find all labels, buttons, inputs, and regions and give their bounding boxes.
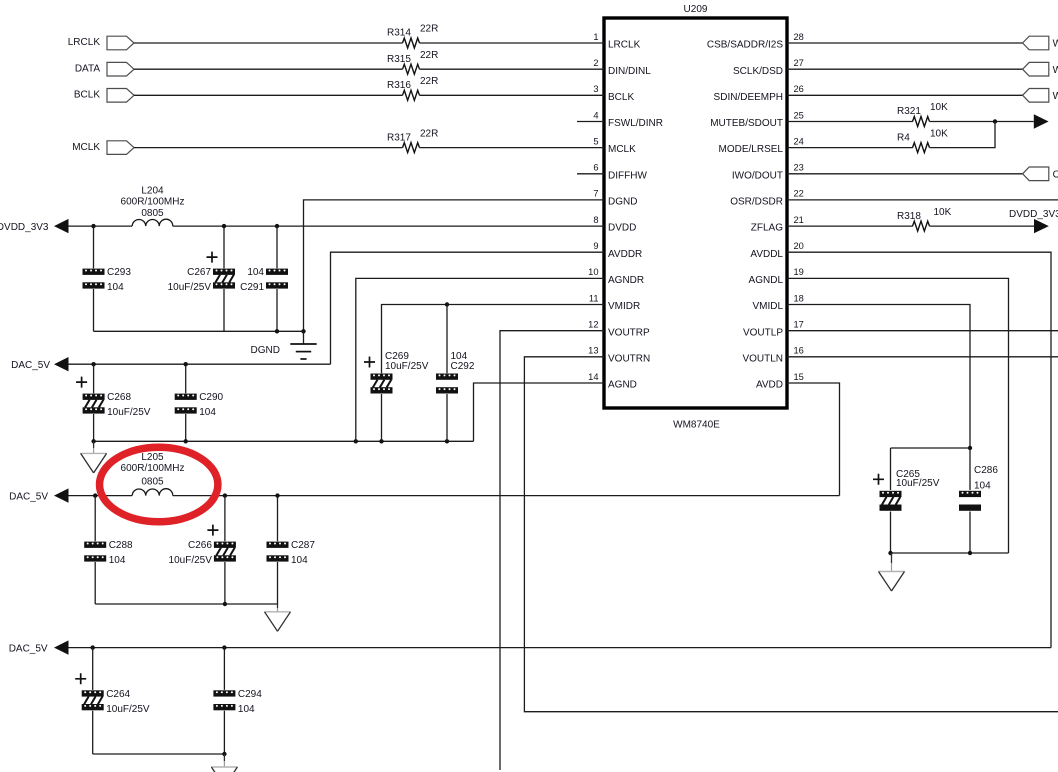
svg-text:W: W — [1053, 39, 1058, 50]
connector LRCLK — [107, 36, 134, 50]
svg-text:C290: C290 — [199, 392, 223, 403]
wire DAC_5V row3 left — [69, 495, 133, 497]
junction row2 / C290 — [184, 362, 188, 366]
svg-text:16: 16 — [794, 346, 804, 356]
svg-text:AGND: AGND — [608, 380, 637, 391]
svg-text:10uF/25V: 10uF/25V — [168, 282, 212, 293]
svg-text:C287: C287 — [291, 540, 315, 551]
resistor R321 — [897, 102, 948, 126]
svg-text:BCLK: BCLK — [608, 92, 634, 103]
junction rgnd / C265 — [888, 551, 892, 555]
wire R315 to IC — [420, 68, 605, 70]
junction agnd / C269 — [379, 439, 383, 443]
wire pin 16 to edge — [787, 356, 1058, 358]
wire pin 4 stub — [577, 121, 604, 123]
svg-text:ZFLAG: ZFLAG — [751, 223, 783, 234]
wire pin 24 to R4 — [787, 147, 913, 149]
polarized capacitor C268 — [76, 377, 151, 419]
wire DVDD_3V3 rail to pin 8 — [173, 225, 604, 227]
connector DATA — [107, 62, 134, 76]
svg-text:22R: 22R — [420, 76, 438, 87]
svg-text:21: 21 — [794, 215, 804, 225]
wire C268 top lead — [93, 364, 95, 393]
connector CSB/SADDR/I2S — [1023, 36, 1058, 50]
wire right ground rail — [891, 552, 1009, 554]
svg-text:23: 23 — [794, 163, 804, 173]
svg-text:8: 8 — [593, 215, 598, 225]
ground right ground — [879, 553, 905, 591]
capacitor C294 — [213, 689, 262, 715]
svg-text:104: 104 — [247, 267, 264, 278]
wire C267 bottom lead — [223, 289, 225, 331]
svg-text:AGNDR: AGNDR — [608, 275, 644, 286]
wire R321 to arrow — [930, 121, 1034, 123]
svg-text:AGNDL: AGNDL — [749, 275, 784, 286]
wire C290 bottom lead — [185, 414, 187, 441]
svg-text:MCLK: MCLK — [608, 144, 636, 155]
svg-text:DGND: DGND — [608, 197, 637, 208]
svg-text:DVDD_3V3: DVDD_3V3 — [0, 222, 49, 233]
svg-text:R314: R314 — [387, 28, 411, 39]
wire C292 bottom lead — [446, 394, 448, 441]
wire C288 top lead — [94, 496, 96, 542]
svg-text:17: 17 — [794, 320, 804, 330]
wire C267 top lead — [223, 226, 225, 268]
svg-text:C294: C294 — [238, 689, 262, 700]
svg-text:DAC_5V: DAC_5V — [9, 644, 48, 655]
svg-text:IWO/DOUT: IWO/DOUT — [732, 170, 783, 181]
wire C293 top lead — [93, 226, 95, 268]
svg-text:DVDD: DVDD — [608, 223, 636, 234]
wire pin 11 VMIDR — [382, 305, 605, 374]
junction row4 gnd / C294 — [222, 752, 226, 756]
svg-text:10uF/25V: 10uF/25V — [169, 555, 213, 566]
wire C290 top lead — [185, 364, 187, 393]
resistor R318 — [897, 207, 952, 231]
wire DAC_5V rail row2 — [69, 363, 331, 365]
svg-text:12: 12 — [588, 320, 598, 330]
polarized capacitor C266 — [169, 525, 236, 567]
svg-text:10uF/25V: 10uF/25V — [106, 704, 150, 715]
junction pin11 / C292 — [445, 302, 449, 306]
wire C287 bottom lead — [277, 562, 279, 604]
plus polarity mark — [76, 377, 87, 388]
svg-text:4: 4 — [593, 110, 598, 120]
wire C268 bottom lead — [93, 414, 95, 441]
svg-text:0805: 0805 — [141, 477, 164, 488]
plus polarity mark — [207, 252, 218, 263]
svg-text:2: 2 — [593, 58, 598, 68]
polarized capacitor C265 — [873, 469, 940, 511]
svg-text:20: 20 — [794, 241, 804, 251]
wire C287 top lead — [277, 496, 279, 542]
svg-text:C266: C266 — [188, 540, 212, 551]
svg-text:C264: C264 — [106, 689, 130, 700]
wire C294 top lead — [223, 648, 225, 690]
svg-text:R315: R315 — [387, 54, 411, 65]
resistor R315 — [387, 50, 438, 74]
wire pin 14 AGND — [474, 383, 605, 441]
junction DVDD_3V3 / C267 — [222, 224, 226, 228]
svg-text:10uF/25V: 10uF/25V — [385, 361, 429, 372]
svg-text:LRCLK: LRCLK — [68, 37, 101, 48]
svg-text:22R: 22R — [420, 50, 438, 61]
junction row2 / C268 — [91, 362, 95, 366]
wire C265 bottom lead — [890, 512, 892, 554]
ground row3 ground — [265, 604, 291, 631]
svg-text:5: 5 — [593, 136, 598, 146]
capacitor C291 — [240, 267, 288, 293]
wire C288 bottom lead — [94, 562, 96, 604]
junction agnd / pin10 — [354, 439, 358, 443]
svg-text:DIFFHW: DIFFHW — [608, 170, 647, 181]
wire DAC_5V row3 to pin15 drop — [173, 495, 840, 497]
svg-text:104: 104 — [238, 704, 255, 715]
svg-text:AVDDL: AVDDL — [750, 249, 783, 260]
wire pin 12 VOUTRP — [500, 331, 604, 770]
junction rail / C291 — [275, 329, 279, 333]
power arrow DAC_5V row2 — [54, 357, 69, 371]
svg-text:VMIDL: VMIDL — [752, 301, 783, 312]
svg-text:10K: 10K — [930, 128, 948, 139]
wire C291 top lead — [276, 226, 278, 268]
junction rail / DGND stem — [301, 329, 305, 333]
svg-text:3: 3 — [593, 84, 598, 94]
power arrow DAC_5V row3 — [54, 488, 69, 502]
svg-text:DIN/DINL: DIN/DINL — [608, 66, 651, 77]
svg-text:10uF/25V: 10uF/25V — [107, 407, 151, 418]
wire pin 20 AVDDL — [787, 252, 1051, 647]
wire row3 ground rail — [95, 603, 277, 605]
svg-text:OSR/DSDR: OSR/DSDR — [730, 197, 783, 208]
svg-text:L204: L204 — [141, 185, 164, 196]
wire C265 top lead — [890, 448, 892, 490]
power arrow MUTE out — [1034, 114, 1049, 128]
junction vmidl / C265 branch — [968, 446, 972, 450]
wire C294 bottom lead — [223, 711, 225, 754]
svg-text:VOUTLN: VOUTLN — [742, 353, 783, 364]
svg-text:AVDD: AVDD — [756, 380, 783, 391]
wire C291 bottom lead — [276, 289, 278, 331]
svg-text:C267: C267 — [187, 267, 211, 278]
svg-text:DATA: DATA — [75, 63, 101, 74]
wire pin 6 stub — [577, 173, 604, 175]
wire R318 to arrow — [930, 225, 1035, 227]
capacitor C286 — [959, 465, 998, 511]
wire input to R317 — [134, 147, 403, 149]
svg-text:15: 15 — [794, 372, 804, 382]
capacitor C288 — [84, 540, 133, 566]
capacitor C293 — [83, 267, 132, 293]
svg-text:R321: R321 — [897, 106, 921, 117]
capacitor C287 — [267, 540, 316, 566]
wire C286 bottom lead — [969, 512, 971, 554]
junction row4 / C294 — [222, 645, 226, 649]
wire pin 9 AVDDR — [331, 252, 605, 364]
svg-text:W: W — [1053, 65, 1058, 76]
wire R317 to IC — [420, 147, 605, 149]
wire row4 ground rail — [93, 753, 225, 755]
svg-text:C292: C292 — [451, 361, 475, 372]
plus polarity mark — [207, 525, 218, 536]
svg-text:VOUTRP: VOUTRP — [608, 327, 650, 338]
svg-text:AVDDR: AVDDR — [608, 249, 642, 260]
svg-text:SCLK/DSD: SCLK/DSD — [733, 66, 783, 77]
svg-text:CSB/SADDR/I2S: CSB/SADDR/I2S — [707, 40, 783, 51]
wire input to R315 — [134, 68, 403, 70]
junction mute node — [993, 119, 997, 123]
polarized capacitor C264 — [75, 673, 150, 715]
capacitor C292 — [436, 351, 475, 394]
svg-text:MODE/LRSEL: MODE/LRSEL — [719, 144, 784, 155]
junction rgnd / C286 — [968, 551, 972, 555]
capacitor C290 — [175, 392, 224, 418]
wire pin 19 AGNDL — [787, 278, 1009, 553]
wire row1 ground rail — [94, 330, 304, 332]
inductor L204 coil — [132, 219, 173, 226]
svg-text:R317: R317 — [387, 132, 411, 143]
svg-text:27: 27 — [794, 58, 804, 68]
wire C266 top lead — [224, 496, 226, 542]
svg-text:600R/100MHz: 600R/100MHz — [121, 463, 185, 474]
wire C292 top lead — [446, 305, 448, 374]
svg-text:10uF/25V: 10uF/25V — [896, 478, 940, 489]
wire C265 top branch — [891, 447, 971, 449]
connector IWO/DOUT — [1023, 167, 1058, 181]
svg-text:10: 10 — [588, 267, 598, 277]
svg-text:MCLK: MCLK — [72, 142, 100, 153]
svg-text:22R: 22R — [420, 24, 438, 35]
junction agnd / C292 — [445, 439, 449, 443]
wire C269 bottom lead — [381, 394, 383, 441]
junction agnd / C268 — [91, 439, 95, 443]
svg-text:13: 13 — [588, 346, 598, 356]
svg-text:FSWL/DINR: FSWL/DINR — [608, 118, 663, 129]
wire R316 to IC — [420, 94, 605, 96]
wire pin 21 to R318 — [787, 225, 913, 227]
svg-text:R318: R318 — [897, 211, 921, 222]
connector BCLK — [107, 89, 134, 103]
svg-text:SDIN/DEEMPH: SDIN/DEEMPH — [714, 92, 783, 103]
svg-text:104: 104 — [199, 407, 216, 418]
wire pin 10 AGNDR — [356, 278, 604, 441]
svg-text:L205: L205 — [141, 452, 164, 463]
wire pin 15 AVDD — [787, 383, 840, 496]
svg-text:24: 24 — [794, 136, 804, 146]
svg-text:C293: C293 — [107, 267, 131, 278]
svg-text:U209: U209 — [684, 4, 708, 15]
svg-text:BCLK: BCLK — [74, 90, 100, 101]
resistor R4 — [897, 128, 948, 152]
svg-text:C268: C268 — [107, 392, 131, 403]
wire pin 28 to connector — [787, 42, 1023, 44]
svg-text:DGND: DGND — [251, 345, 280, 356]
wire C286 top lead — [969, 448, 971, 490]
svg-text:104: 104 — [107, 282, 124, 293]
wire C293 bottom lead — [93, 289, 95, 331]
wire R4 to mute node — [930, 122, 996, 148]
ground DGND earth symbol — [290, 331, 316, 359]
wire pin 23 to connector — [787, 173, 1023, 175]
wire pin 18 VMIDL — [787, 305, 970, 449]
wire pin 26 to connector — [787, 94, 1023, 96]
svg-text:10K: 10K — [934, 207, 952, 218]
wire C264 top lead — [92, 648, 94, 690]
svg-text:R4: R4 — [897, 132, 910, 143]
svg-text:22R: 22R — [420, 128, 438, 139]
junction row3 gnd / C266 — [223, 602, 227, 606]
svg-text:W: W — [1053, 91, 1058, 102]
svg-text:10K: 10K — [930, 102, 948, 113]
svg-text:C291: C291 — [240, 282, 264, 293]
svg-text:C286: C286 — [974, 465, 998, 476]
svg-text:DVDD_3V3: DVDD_3V3 — [1009, 209, 1058, 220]
svg-text:7: 7 — [593, 189, 598, 199]
svg-text:104: 104 — [109, 555, 126, 566]
svg-text:0805: 0805 — [141, 208, 164, 219]
svg-text:VOUTLP: VOUTLP — [743, 327, 783, 338]
plus polarity mark — [364, 357, 375, 368]
wire R314 to IC — [420, 42, 605, 44]
resistor R317 — [387, 128, 438, 152]
svg-text:14: 14 — [588, 372, 598, 382]
ground row2 ground — [81, 441, 107, 473]
svg-text:VOUTRN: VOUTRN — [608, 353, 650, 364]
wire input to R314 — [134, 42, 403, 44]
svg-text:11: 11 — [589, 293, 599, 303]
svg-text:26: 26 — [794, 84, 804, 94]
svg-text:DAC_5V: DAC_5V — [9, 492, 48, 503]
svg-text:6: 6 — [593, 163, 598, 173]
svg-text:18: 18 — [794, 293, 804, 303]
power arrow DVDD_3V3 — [54, 219, 69, 233]
plus polarity mark — [75, 673, 86, 684]
ground row4 ground (clipped) — [211, 754, 237, 772]
junction row3 / C287 — [275, 493, 279, 497]
svg-text:22: 22 — [794, 189, 804, 199]
polarized capacitor C269 — [364, 351, 429, 394]
junction DVDD_3V3 / C293 — [91, 224, 95, 228]
inductor L205 coil — [132, 489, 173, 496]
svg-text:1: 1 — [593, 32, 598, 42]
svg-text:600R/100MHz: 600R/100MHz — [121, 196, 185, 207]
svg-text:VMIDR: VMIDR — [608, 301, 640, 312]
svg-text:104: 104 — [974, 480, 991, 491]
svg-text:DAC_5V: DAC_5V — [11, 360, 50, 371]
wire AGND rail — [94, 440, 474, 442]
svg-text:25: 25 — [794, 110, 804, 120]
power arrow DVDD_3V3 out — [1034, 219, 1049, 233]
resistor R316 — [387, 76, 438, 100]
junction row3 / C288 — [93, 493, 97, 497]
wire pin 17 to edge — [787, 330, 1058, 332]
junction agnd / C290 — [184, 439, 188, 443]
svg-text:O: O — [1053, 169, 1058, 180]
connector MCLK — [107, 141, 134, 155]
svg-text:28: 28 — [794, 32, 804, 42]
annotation red ellipse around L205 — [100, 447, 218, 522]
wire C266 bottom lead — [224, 562, 226, 604]
svg-text:C288: C288 — [109, 540, 133, 551]
svg-text:R316: R316 — [387, 80, 411, 91]
wire pin 13 VOUTRN — [524, 357, 1058, 712]
connector SCLK/DSD — [1023, 62, 1058, 76]
polarized capacitor C267 — [168, 252, 235, 294]
resistor R314 — [387, 24, 438, 48]
wire C264 bottom lead — [92, 711, 94, 754]
wire pin 25 to R321 — [787, 121, 913, 123]
junction row3 / C266 — [223, 493, 227, 497]
svg-text:WM8740E: WM8740E — [673, 420, 720, 431]
plus polarity mark — [873, 474, 884, 485]
svg-text:104: 104 — [291, 555, 308, 566]
wire DVDD_3V3 rail left — [69, 225, 133, 227]
wire pin 27 to connector — [787, 68, 1023, 70]
svg-text:9: 9 — [593, 241, 598, 251]
wire pin 7 DGND — [304, 200, 605, 331]
power arrow DAC_5V row4 — [54, 640, 69, 654]
svg-text:MUTEB/SDOUT: MUTEB/SDOUT — [710, 118, 783, 129]
op IC U209 WM8740E body — [604, 18, 787, 408]
svg-text:19: 19 — [794, 267, 804, 277]
junction row4 / C264 — [91, 645, 95, 649]
wire pin 22 to edge — [787, 199, 1058, 201]
wire DAC_5V row4 rail — [69, 647, 1052, 649]
svg-text:LRCLK: LRCLK — [608, 40, 641, 51]
wire input to R316 — [134, 94, 403, 96]
connector SDIN/DEEMPH — [1023, 89, 1058, 103]
junction DVDD_3V3 / C291 — [275, 224, 279, 228]
